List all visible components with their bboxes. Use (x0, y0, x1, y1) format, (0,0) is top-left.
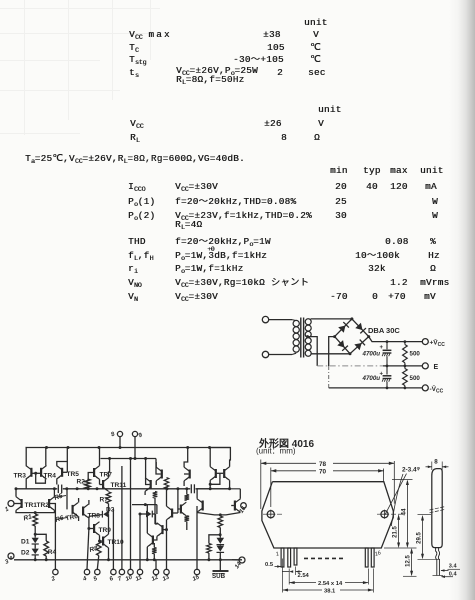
wire (219, 528, 221, 538)
resistor R7 (106, 492, 111, 504)
terminal -Vcc (422, 385, 428, 391)
diode D1 (32, 538, 39, 544)
svg-text:12.5: 12.5 (406, 555, 412, 567)
capacitor C2 4700u (380, 366, 392, 388)
transistor TR3 (26, 466, 33, 480)
svg-text:D1: D1 (21, 539, 30, 546)
wire TR5 base lead (63, 471, 67, 473)
svg-text:E: E (434, 364, 439, 371)
svg-text:+: + (380, 372, 384, 378)
wire node down (156, 505, 158, 514)
svg-text:500: 500 (410, 375, 421, 382)
junction (186, 446, 189, 449)
junction (45, 446, 48, 449)
capacitor C1 4700u (380, 342, 392, 366)
svg-text:R2: R2 (77, 479, 86, 486)
wire (269, 319, 292, 321)
pin 11 (137, 569, 142, 574)
svg-text:8: 8 (434, 459, 438, 466)
svg-text:14: 14 (234, 561, 243, 570)
wire TR11 base (100, 484, 103, 486)
svg-text:500: 500 (410, 350, 421, 357)
wire bridge + to Vcc rail (369, 337, 423, 342)
wire TR2 collector to bus (53, 489, 55, 497)
hole right centerline (377, 513, 403, 515)
wire (269, 354, 292, 356)
wire TR3 collector to bus (25, 479, 27, 489)
wire pin15 up (196, 506, 198, 569)
pin 10 (128, 569, 133, 574)
wire pin6 up (112, 509, 114, 569)
wire Rd bottom (153, 554, 155, 560)
wire TF emitter (185, 516, 187, 518)
transistor TC (210, 467, 217, 481)
conditions line (25, 154, 245, 167)
resistor Rb (153, 492, 158, 499)
dim 12.5 (411, 550, 413, 575)
transistor TO1 output (197, 499, 204, 513)
terminal SUB (213, 570, 229, 572)
faint scan grid lines (24, 0, 25, 135)
wire TB collector up (155, 462, 157, 467)
junction (98, 446, 101, 449)
wire TR6 emitter (78, 516, 80, 521)
wire TE collector to bus (166, 489, 168, 506)
pin 1 (8, 501, 14, 507)
svg-text:5: 5 (93, 576, 99, 583)
junction (176, 487, 179, 490)
svg-text:TR11: TR11 (111, 482, 127, 489)
transistor TR7 (93, 466, 100, 480)
junction (45, 558, 48, 561)
bridge rectifier DBA 30C (333, 317, 370, 355)
svg-text:TR4: TR4 (44, 473, 57, 480)
wire TO2 base (231, 505, 234, 507)
wire TE emitter (166, 520, 168, 530)
main bus (16, 488, 57, 490)
pin 16 (241, 503, 247, 509)
junction (67, 446, 70, 449)
wire Rf down (208, 553, 210, 560)
transistor TG1 (184, 467, 191, 481)
resistor R1 (33, 514, 38, 526)
wire TR8 collector (88, 500, 90, 505)
wire TR10 emitter down (108, 548, 110, 560)
wire TO1 collector up (196, 489, 198, 499)
maximum ratings table (304, 18, 328, 28)
wire pair bases (217, 472, 224, 474)
svg-text:78: 78 (319, 461, 327, 468)
hole left centerline (263, 513, 284, 515)
wire Rc2 down (186, 522, 188, 531)
wire Rc (186, 489, 188, 495)
wire pair base hook (210, 473, 220, 484)
wire base tie hook (36, 473, 46, 483)
pin 12 (153, 569, 158, 574)
wire TH emitter down (146, 547, 148, 560)
wire (34, 544, 36, 549)
junction (87, 487, 90, 490)
operating conditions table (318, 105, 342, 115)
svg-text:TR2: TR2 (37, 502, 50, 509)
dim 29.5 (422, 517, 424, 558)
wire TG1 emitter down (183, 481, 185, 486)
transistor TD (223, 467, 230, 481)
junction (96, 487, 99, 490)
junction (76, 487, 79, 490)
svg-text:TR5: TR5 (67, 471, 80, 478)
terminal +Vcc (422, 339, 428, 345)
resistor Rc (185, 495, 190, 501)
wire to R4 (35, 534, 46, 541)
pin 13 (164, 569, 169, 574)
wire TR1 collector to bus (15, 489, 17, 497)
svg-text:4: 4 (81, 576, 88, 584)
junction base tie (34, 472, 37, 475)
wire TR8 emitter to TR9 base (89, 516, 93, 528)
wire TA emitter down (144, 491, 146, 495)
wire TG base (163, 529, 166, 531)
svg-text:7: 7 (117, 576, 123, 583)
dim 38.1 (283, 589, 323, 591)
resistor R2 (85, 479, 90, 489)
resistor 500 top (403, 342, 408, 366)
pin 14 (239, 557, 245, 563)
wire E rail solid part (383, 365, 422, 367)
svg-text:R8: R8 (89, 545, 99, 554)
junction (404, 340, 407, 343)
svg-text:44: 44 (401, 508, 408, 515)
characteristics table (330, 166, 348, 176)
wire pin8 (119, 437, 121, 448)
wire TR7 base to R2 (88, 473, 93, 480)
capacitor C comp (57, 485, 59, 494)
wire diode Dm (140, 513, 146, 515)
wire R7 to D3 (108, 504, 110, 514)
wire tail (34, 513, 36, 514)
pins front view (281, 548, 284, 567)
diode DD2 (217, 546, 225, 552)
diode D3 (103, 511, 109, 518)
svg-text:21.5: 21.5 (393, 526, 399, 538)
wire TG1 top (184, 448, 188, 468)
svg-text:70: 70 (319, 469, 327, 476)
svg-text:R7: R7 (100, 497, 109, 504)
wire common emitters (16, 510, 54, 512)
wire pin11 up (139, 514, 141, 569)
package body front view (262, 482, 393, 548)
svg-text:-V̄CC: -V̄CC (430, 384, 444, 394)
wire pin7 up (121, 466, 123, 569)
resistor Rf (207, 544, 212, 554)
wire TR5 collector to bus (56, 479, 58, 484)
wire (34, 555, 36, 560)
svg-text:+: + (380, 345, 384, 351)
svg-text:10: 10 (125, 574, 134, 583)
pin 9 (132, 431, 137, 436)
transistor TR4 (40, 466, 47, 480)
wire TA base (146, 459, 150, 485)
wire TR4 emitter to rail (45, 448, 47, 466)
diode D2 (32, 549, 39, 555)
leader lines 2-3.4 (385, 474, 407, 515)
wire TR5 emitter to rail (57, 448, 68, 466)
svg-text:(unit：mm): (unit：mm) (256, 447, 296, 456)
wire TR9 base to pin4 (87, 529, 89, 570)
wire TO1 emitter slant (197, 513, 220, 515)
svg-text:13: 13 (162, 574, 171, 583)
dim 2.54 x 14 (289, 582, 316, 584)
resistor Re (218, 516, 223, 528)
resistor 500 bottom (403, 366, 408, 388)
svg-text:12: 12 (151, 574, 160, 583)
wire pin12 stub (155, 560, 157, 570)
transistor TR2 (48, 497, 55, 511)
svg-text:8: 8 (110, 431, 116, 438)
wire TR10 collector up to D3 (108, 514, 110, 534)
dim 44 (406, 481, 408, 547)
pin 5 (95, 569, 100, 574)
wire TC emitter up (209, 448, 211, 467)
wire secondary top to bridge (311, 318, 352, 320)
transistor TE (167, 506, 174, 520)
junction (119, 446, 122, 449)
side view pin (436, 548, 440, 576)
transistor TF (180, 502, 187, 516)
junction (144, 457, 147, 460)
wire TC collector to bus (209, 484, 211, 489)
wire TR2 base to pin2 (50, 504, 56, 570)
wire TO2 collector up (239, 489, 241, 499)
transistor TR10 (102, 534, 109, 548)
wire TR6 collector (78, 498, 80, 503)
resistor Rc2 (185, 516, 190, 522)
transistor TR5 (57, 466, 64, 480)
svg-text:4700u: 4700u (362, 375, 381, 382)
wire TR6 base to bus (66, 489, 68, 510)
resistor R4 (44, 541, 49, 556)
wire Rd top (153, 543, 155, 548)
wire TO2 emitter slant (220, 513, 240, 515)
junction (208, 446, 211, 449)
pins omitted dashes (304, 557, 344, 559)
svg-text:R4: R4 (48, 549, 57, 556)
wire TR3 emitter to rail (25, 448, 27, 466)
wire TR9 emitter to TR10 base (100, 535, 103, 541)
wire output top line (197, 488, 240, 490)
dim 70 (271, 470, 316, 472)
svg-text:2: 2 (50, 576, 57, 584)
svg-text:29.5: 29.5 (417, 532, 423, 544)
svg-text:DBA 30C: DBA 30C (368, 326, 400, 335)
wire TE base (173, 512, 178, 514)
svg-text:16: 16 (374, 550, 383, 558)
diode Dm (146, 511, 152, 518)
svg-text:TR6: TR6 (65, 513, 79, 523)
wire mid node line (132, 504, 157, 506)
dim 21.5 (398, 516, 400, 547)
svg-text:1: 1 (4, 506, 10, 513)
transistor TO2 output (234, 499, 241, 513)
wire bridge - down to -Vcc rail (329, 337, 335, 366)
junction (129, 457, 132, 460)
junction (65, 487, 68, 490)
svg-text:11: 11 (135, 574, 144, 582)
pin 6 (111, 569, 116, 574)
svg-text:0.5: 0.5 (265, 562, 274, 568)
wire TR3 base-TR4 base (31, 472, 40, 474)
junction (404, 365, 407, 368)
svg-text:9: 9 (138, 432, 144, 439)
junction (134, 457, 137, 460)
node center tap (306, 335, 309, 338)
wire R4 bottom (45, 556, 47, 560)
svg-text:TR3: TR3 (14, 473, 27, 480)
wire to SUB (219, 552, 221, 571)
transistor TR6 (72, 503, 79, 517)
wire Rb down (154, 498, 156, 524)
transistor TR11 (102, 478, 109, 492)
junction (34, 533, 37, 536)
pin 4 (84, 569, 89, 574)
pin 3 (8, 553, 14, 559)
wire TB base (156, 459, 161, 475)
pin 8 (117, 431, 122, 436)
transistor TG (157, 523, 164, 537)
wire branch to Rf (209, 535, 220, 544)
transistor TH (147, 533, 154, 547)
junction (386, 340, 389, 343)
wire R1 to diodes (34, 526, 36, 538)
svg-text:TR1: TR1 (25, 502, 38, 509)
svg-text:TR9: TR9 (99, 527, 112, 534)
svg-text:4700u: 4700u (362, 350, 381, 357)
dim 2.54 (288, 569, 290, 585)
svg-text:3: 3 (4, 559, 10, 566)
wire R8 to pin5 (97, 556, 99, 570)
junction (386, 387, 389, 390)
mounting hole right (381, 511, 388, 518)
pin 15 (194, 569, 199, 574)
wire TB emitter (155, 481, 157, 485)
wire pin9 (134, 437, 136, 459)
terminal E (422, 363, 428, 369)
terminal AC input top (262, 316, 268, 322)
transformer T1 (292, 318, 311, 358)
wire pin10 up (130, 459, 132, 570)
wire TG1 base (184, 473, 189, 475)
resistor Ra (164, 478, 169, 489)
wire TR11 collector up to rail2 (109, 459, 110, 478)
diode DD1 (217, 538, 225, 544)
transistor TA (145, 478, 152, 492)
wire diode to TG collector (156, 514, 157, 524)
wire D3 left (89, 515, 102, 517)
transistor TR8 (82, 504, 89, 518)
capacitor C comp 2 (190, 484, 192, 493)
wire TG emitter to TH base (154, 536, 157, 540)
side view body (432, 469, 442, 548)
svg-text:2.54 x 14: 2.54 x 14 (318, 581, 343, 587)
junction (404, 387, 407, 390)
junction (165, 487, 168, 490)
wire bus continues (63, 488, 190, 490)
wire pin14 (232, 559, 239, 561)
wire secondary bottom to bridge (311, 353, 351, 355)
extension lines (260, 460, 262, 510)
ground rail bottom (14, 559, 242, 561)
svg-text:TR7: TR7 (100, 472, 113, 479)
svg-text:1: 1 (275, 551, 280, 558)
mounting hole left (267, 511, 274, 518)
transistor TR9 (93, 522, 100, 536)
dim 78 (261, 462, 316, 464)
junction (34, 558, 37, 561)
svg-text:D2: D2 (21, 550, 30, 557)
svg-text:2.54: 2.54 (298, 573, 310, 579)
resistor Rd (152, 548, 157, 554)
junction output node (219, 513, 222, 516)
junction (108, 457, 111, 460)
wire TR7 emitter up (99, 448, 101, 466)
wire pin13 up (166, 530, 168, 570)
wire pin1 to TR1 base (14, 503, 21, 505)
pin 7 (119, 569, 124, 574)
wire TF base (178, 508, 180, 510)
Vcc rail top (26, 447, 231, 449)
wire pin16 stub (239, 505, 241, 507)
rail2 (101, 458, 157, 460)
svg-text:15: 15 (192, 574, 201, 583)
wire (219, 545, 221, 546)
resistor R8 (97, 541, 102, 556)
junction (386, 365, 389, 368)
wire TH collector up (146, 505, 148, 534)
svg-text:6: 6 (109, 576, 115, 583)
pin 2 (53, 569, 58, 574)
wire bus right end (196, 488, 231, 490)
transistor TR1 (16, 497, 23, 511)
svg-text:+V̄CC: +V̄CC (430, 338, 446, 348)
wire center tap to E rail (308, 337, 318, 366)
wire TR7 collector down (99, 479, 101, 484)
svg-text:2-3.4φ: 2-3.4φ (402, 466, 421, 474)
transistor TB (156, 467, 163, 481)
svg-text:38.1: 38.1 (324, 588, 336, 594)
side view hole centerlines (430, 510, 445, 513)
wire TD collector to bus (229, 480, 231, 489)
terminal AC input bottom (262, 351, 268, 357)
wire TD emitter up (210, 448, 231, 467)
svg-text:SUB: SUB (212, 573, 226, 580)
